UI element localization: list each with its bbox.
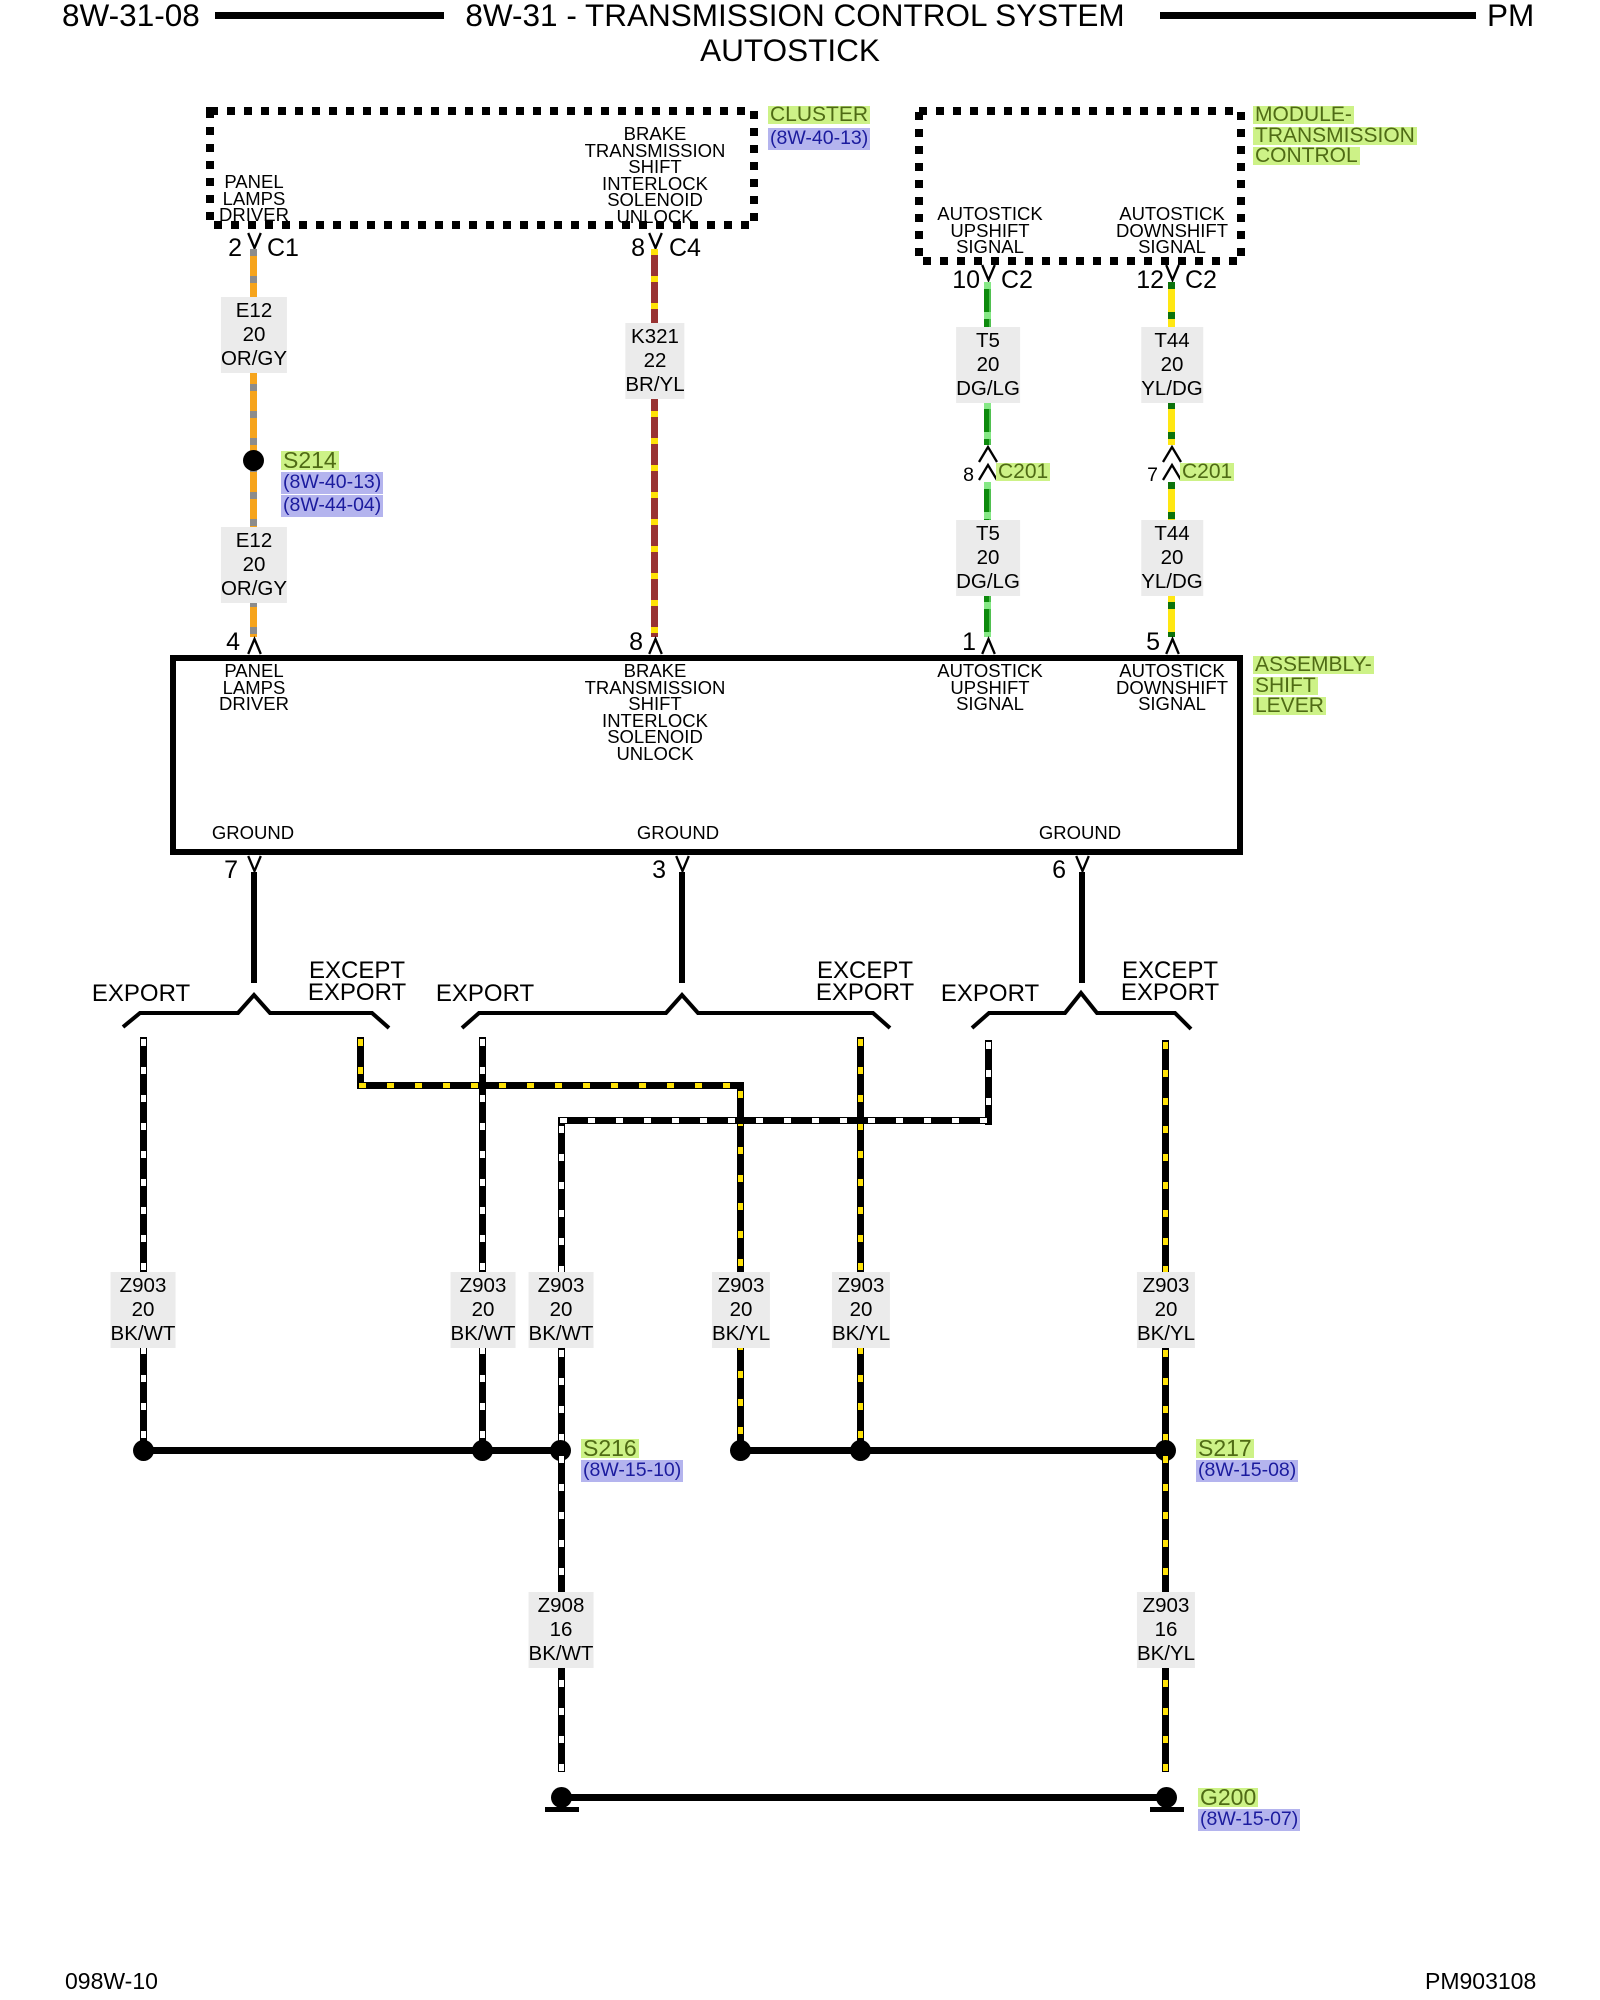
connector symbol V at pin 3 (675, 855, 690, 872)
junction dot S216 middle (472, 1440, 493, 1461)
pin label PANEL LAMPS DRIVER (lever) (219, 663, 289, 713)
connector symbol V at pin 8 (648, 232, 663, 249)
label EXCEPT EXPORT (split 2) (816, 960, 914, 1003)
junction dot G200 left (551, 1787, 572, 1808)
title text AUTOSTICK (700, 35, 880, 65)
label EXPORT (split 3) (941, 983, 1039, 1005)
wire label T44 20 YL/DG (upper) (1141, 327, 1203, 403)
junction dot S217 left (730, 1440, 751, 1461)
splice bracket split 3 (pin 6 EXPORT / EXCEPT EXPORT) (960, 980, 1205, 1035)
wire Z903 BK/YL branch except-export 2 (857, 1037, 864, 1450)
wire E12 20 OR/GY vertical (250, 249, 257, 637)
wire label Z908 16 BK/WT (529, 1592, 594, 1668)
wire T5 20 DG/LG lower segment (984, 482, 991, 637)
wire label K321 22 BR/YL (625, 323, 684, 399)
connector symbol caret at pin 8 (648, 638, 663, 655)
pin label AUTOSTICK DOWNSHIFT SIGNAL (lever) (1116, 663, 1228, 713)
wire label T5 20 DG/LG (upper) (956, 327, 1020, 403)
wire Z903 BK/WT branch export 3 (vertical) (985, 1040, 992, 1125)
label CLUSTER (768, 106, 870, 124)
wire Z903 BK/YL drop to S217 (737, 1089, 744, 1450)
label EXPORT (split 1) (92, 983, 190, 1005)
pin number 8 at C201 (944, 466, 974, 484)
pin number 3 (634, 858, 666, 883)
pin number 4 (208, 630, 240, 655)
pin number 10 (944, 268, 980, 293)
splice S216 bus bar (144, 1447, 561, 1454)
pin label GROUND (pin 7) (212, 825, 294, 842)
pin number 7 at C201 (1128, 466, 1158, 484)
pin number 8 (613, 236, 645, 261)
wire T5 20 DG/LG upper segment (984, 282, 991, 445)
label MODULE- line 1 (1253, 106, 1354, 124)
wire Z903 BK/YL branch except-export 3 (1162, 1040, 1169, 1450)
wire label Z903 20 BK/WT (3) (529, 1272, 594, 1348)
pin number 1 (944, 630, 976, 655)
connector name C4 (669, 236, 701, 261)
wire label Z903 20 BK/YL (4) (712, 1272, 770, 1348)
wire label Z903 20 BK/YL (5) (832, 1272, 890, 1348)
wire ground stub from pin 3 (679, 872, 685, 983)
reference (8W-15-07) for G200 (1198, 1809, 1300, 1831)
reference (8W-44-04) for S214 (281, 495, 383, 517)
wire label T44 20 YL/DG (lower) (1141, 520, 1203, 596)
junction dot S217 right (1155, 1440, 1176, 1461)
wire label Z903 16 BK/YL (1137, 1592, 1195, 1668)
reference (8W-15-08) for S217 (1196, 1460, 1298, 1482)
label LEVER line 3 (1253, 697, 1326, 715)
label CONTROL line 3 (1253, 147, 1360, 165)
reference (8W-15-10) for S216 (581, 1460, 683, 1482)
junction dot S216 left (133, 1440, 154, 1461)
pin number 6 (1034, 858, 1066, 883)
wire Z903 BK/WT drop to S216 (558, 1124, 565, 1450)
pin label AUTOSTICK UPSHIFT SIGNAL (lever) (937, 663, 1043, 713)
junction dot S216 right (550, 1440, 571, 1461)
pin number 8 (lever) (611, 630, 643, 655)
wire ground stub from pin 7 (251, 872, 257, 983)
pin label GROUND (pin 6) (1039, 825, 1121, 842)
component MODULE-TRANSMISSION CONTROL dashed box (915, 107, 1245, 265)
connector symbol caret at pin 4 (247, 638, 262, 655)
label S216 (581, 1439, 639, 1458)
connector name C1 (267, 236, 299, 261)
ground pad left (545, 1807, 579, 1812)
wire T44 20 YL/DG lower segment (1168, 482, 1175, 637)
component CLUSTER dashed box (206, 107, 758, 229)
header rule right (1160, 12, 1476, 19)
pin label GROUND (pin 3) (637, 825, 719, 842)
title text 8W-31 - TRANSMISSION CONTROL SYSTEM (465, 0, 1124, 30)
splice S217 bus bar (741, 1447, 1166, 1454)
pin label AUTOSTICK DOWNSHIFT SIGNAL (module) (1116, 206, 1228, 256)
wire label T5 20 DG/LG (lower) (956, 520, 1020, 596)
pin number 2 (210, 236, 242, 261)
connector name C201 (left) (996, 463, 1050, 481)
footer text PM903108 (1425, 1968, 1536, 1995)
wire Z903 BK/YL branch except-export 1 (vertical) (357, 1037, 364, 1089)
junction dot S217 middle (850, 1440, 871, 1461)
wire T44 20 YL/DG upper segment (1168, 282, 1175, 445)
label ASSEMBLY- line 1 (1253, 656, 1374, 674)
pin number 12 (1128, 268, 1164, 293)
connector name C2 (downshift) (1185, 268, 1217, 293)
wire Z908 16 BK/WT to G200 (558, 1454, 565, 1772)
label EXCEPT EXPORT (split 3) (1121, 960, 1219, 1003)
ground G200 bus bar (561, 1794, 1167, 1801)
wire label Z903 20 BK/YL (6) (1137, 1272, 1195, 1348)
connector symbol V at pin 6 (1075, 855, 1090, 872)
connector symbol V at pin 12 (1165, 264, 1180, 281)
wire Z903 BK/WT branch export 1 (140, 1037, 147, 1450)
label G200 (1198, 1788, 1258, 1807)
connector name C201 (right) (1180, 463, 1234, 481)
title text PM (1487, 0, 1534, 30)
wire Z903 BK/YL jog horizontal (357, 1082, 744, 1089)
label SHIFT line 2 (1253, 677, 1318, 695)
pin number 5 (1128, 630, 1160, 655)
connector C201 double chevron (pin 7) (1161, 445, 1183, 482)
reference (8W-40-13) for S214 (281, 472, 383, 494)
wire ground stub from pin 6 (1079, 872, 1085, 983)
wire Z903 BK/WT branch export 2 (479, 1037, 486, 1450)
reference (8W-40-13) for CLUSTER (768, 128, 870, 150)
connector symbol V at pin 2 (247, 232, 262, 249)
pin label BRAKE TRANSMISSION SHIFT INTERLOCK SOLENOID UNLOCK (lever) (585, 663, 726, 762)
label EXPORT (split 2) (436, 983, 534, 1005)
connector symbol caret at pin 1 (981, 638, 996, 655)
label EXCEPT EXPORT (split 1) (308, 960, 406, 1003)
label TRANSMISSION line 2 (1253, 127, 1417, 145)
connector name C2 (upshift) (1001, 268, 1033, 293)
splice bracket split 2 (pin 3 EXPORT / EXCEPT EXPORT) (450, 980, 900, 1035)
wire Z903 16 BK/YL to G200 (1162, 1454, 1169, 1772)
connector symbol V at pin 10 (981, 264, 996, 281)
pin label PANEL LAMPS DRIVER (cluster) (219, 174, 289, 224)
wire K321 22 BR/YL vertical (651, 249, 658, 637)
wire label Z903 20 BK/WT (2) (451, 1272, 516, 1348)
pin label BRAKE TRANSMISSION SHIFT INTERLOCK SOLENOID UNLOCK (cluster) (585, 126, 726, 225)
junction dot G200 right (1156, 1787, 1177, 1808)
pin label AUTOSTICK UPSHIFT SIGNAL (module) (937, 206, 1043, 256)
wire label E12 20 OR/GY (upper) (221, 297, 287, 373)
header rule left (215, 12, 444, 19)
wire label Z903 20 BK/WT (1) (111, 1272, 176, 1348)
ground pad right (1150, 1807, 1184, 1812)
splice bracket split 1 (pin 7 EXPORT / EXCEPT EXPORT) (110, 980, 410, 1035)
connector symbol caret at pin 5 (1165, 638, 1180, 655)
connector symbol V at pin 7 (247, 855, 262, 872)
connector C201 double chevron (pin 8) (977, 445, 999, 482)
wire label E12 20 OR/GY (lower) (221, 527, 287, 603)
label S217 (1196, 1439, 1254, 1458)
footer text 098W-10 (65, 1968, 158, 1995)
splice S214 dot (243, 450, 264, 471)
wire Z903 BK/WT jog horizontal (558, 1117, 992, 1124)
component ASSEMBLY-SHIFT LEVER box (170, 655, 1243, 855)
pin number 7 (206, 858, 238, 883)
label S214 (281, 451, 339, 470)
title text 8W-31-08 (62, 0, 200, 30)
